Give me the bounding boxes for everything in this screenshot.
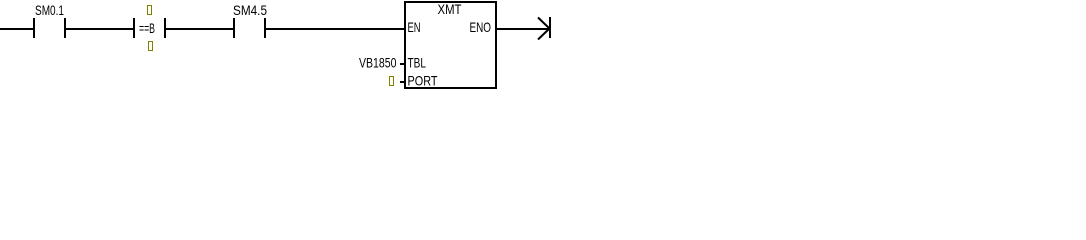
svg-text:SM0.1: SM0.1 bbox=[35, 2, 64, 18]
svg-text:VB1850: VB1850 bbox=[359, 55, 397, 71]
svg-text:SM4.5: SM4.5 bbox=[233, 2, 267, 18]
svg-text:==B: ==B bbox=[139, 20, 155, 36]
svg-text:XMT: XMT bbox=[438, 1, 462, 17]
svg-text:PORT: PORT bbox=[408, 73, 438, 89]
svg-text:EN: EN bbox=[408, 19, 421, 35]
svg-text:TBL: TBL bbox=[408, 55, 427, 71]
svg-text:ENO: ENO bbox=[470, 19, 492, 35]
